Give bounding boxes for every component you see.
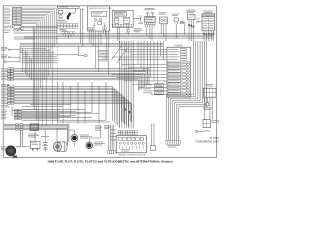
svg-text:FUSES: FUSES [174, 44, 183, 47]
svg-text:**CARBURETED ONLY: **CARBURETED ONLY [195, 141, 220, 144]
svg-text:CARBURETED FLHT ONLY: CARBURETED FLHT ONLY [89, 7, 114, 10]
svg-text:*FI ONLY: *FI ONLY [209, 138, 219, 140]
svg-text:CRUISE CONTROL MODULE: CRUISE CONTROL MODULE [118, 155, 147, 157]
svg-text:1999 FLHR, FLHT, FLHTC, FLHTCU: 1999 FLHR, FLHT, FLHTC, FLHTCU and FLTR … [47, 160, 172, 164]
